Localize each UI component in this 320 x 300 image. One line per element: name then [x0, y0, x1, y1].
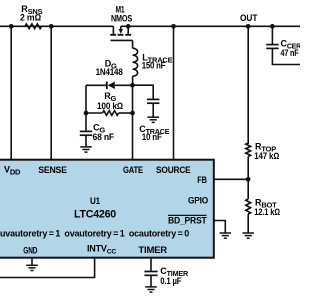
- ground: GND pin: [26, 264, 38, 266]
- wire: FB node down to R_BOT: [247, 179, 249, 199]
- wire: R_TOP to FB node: [247, 157, 249, 180]
- svg-text:47 nF: 47 nF: [281, 48, 300, 58]
- node: M1 source/body rail junction: [126, 24, 131, 29]
- wire: GATE vertical down to IC: [132, 113, 134, 161]
- capacitor C_TRACE 10 nF: [139, 99, 169, 142]
- node: VDD rail junction: [9, 24, 14, 29]
- svg-text:FB: FB: [197, 175, 207, 185]
- wire: gate network left vertical: [85, 85, 87, 131]
- wire: INTVCC pin down and left off-image: [0, 259, 95, 278]
- resistor R_BOT 12.1 kOhm: [246, 197, 280, 217]
- svg-text:SENSE: SENSE: [38, 165, 67, 175]
- wire: TIMER pin stub: [150, 259, 152, 272]
- svg-text:GND: GND: [23, 246, 38, 256]
- svg-text:SOURCE: SOURCE: [156, 165, 191, 175]
- resistor R_SNS 2 mOhm: [20, 4, 43, 29]
- ground: BD_PRST: [220, 232, 232, 234]
- transistor M1 NMOS pass FET: [110, 5, 132, 41]
- capacitor C_CER 47 nF: [266, 39, 301, 58]
- svg-text:1N4148: 1N4148: [96, 67, 123, 77]
- svg-text:100 kΩ: 100 kΩ: [97, 101, 123, 111]
- svg-text:NMOS: NMOS: [111, 13, 132, 23]
- wire: top rail left segment (VDD input): [0, 25, 113, 27]
- svg-text:OUT: OUT: [240, 13, 258, 23]
- svg-text:TIMER: TIMER: [138, 245, 167, 255]
- inductor L_TRACE 150 nF: [133, 48, 173, 76]
- wire: inductor bottom to gate node: [132, 76, 134, 85]
- wire: R_BOT to ground: [247, 214, 249, 233]
- diode D_G 1N4148: [86, 58, 133, 89]
- wire: VDD vertical down to IC: [10, 26, 12, 160]
- svg-text:BD_PRST: BD_PRST: [168, 216, 207, 226]
- svg-text:uvautoretry = 1 ovautoretry =: uvautoretry = 1 ovautoretry = 1 ocautore…: [0, 229, 189, 239]
- svg-text:10 nF: 10 nF: [142, 132, 163, 142]
- svg-text:U1: U1: [90, 196, 100, 206]
- node: R_G left junction: [84, 111, 89, 116]
- wire: top rail right segment (to OUT): [121, 25, 300, 27]
- ground: C_TIMER: [145, 286, 157, 288]
- capacitor C_TIMER 0.1 uF: [144, 266, 189, 287]
- node: gate net junction: [130, 83, 135, 88]
- wire: FB to IC: [213, 178, 248, 180]
- wire: M1 gate plate corner down to inductor: [132, 40, 134, 48]
- ground: C_G: [80, 146, 92, 148]
- wire: gate node down to R_G row: [132, 85, 134, 113]
- wire: rail down to C_CER: [271, 26, 273, 44]
- wire: gate node right to C_TRACE: [133, 85, 154, 99]
- wire: BD_PRST to ground: [213, 221, 225, 234]
- node: SENSE rail junction: [49, 24, 54, 29]
- svg-text:147 kΩ: 147 kΩ: [254, 151, 279, 161]
- svg-text:0.1 µF: 0.1 µF: [160, 276, 182, 286]
- ground: C_TRACE: [147, 116, 159, 118]
- node: FB junction: [246, 177, 251, 182]
- node: OUT rail junction: [246, 24, 251, 29]
- wire: SOURCE vertical down to IC: [173, 26, 175, 160]
- node: R_G right junction: [130, 111, 135, 116]
- capacitor C_G 68 nF: [80, 123, 115, 147]
- node: C_CER rail junction: [270, 24, 275, 29]
- resistor R_G 100 kOhm: [86, 91, 133, 115]
- op-amp U1 LTC4260 IC body: [0, 160, 214, 258]
- svg-text:68 nF: 68 nF: [93, 132, 115, 142]
- wire: C_CER bottom exiting right edge: [272, 48, 300, 64]
- svg-text:GATE: GATE: [123, 165, 143, 175]
- svg-text:GPIO: GPIO: [188, 195, 208, 205]
- svg-text:2 mΩ: 2 mΩ: [20, 12, 41, 22]
- node: SOURCE rail junction: [171, 24, 176, 29]
- svg-text:12.1 kΩ: 12.1 kΩ: [254, 207, 280, 217]
- ground: R_BOT: [242, 232, 254, 234]
- pin label BD_PRST with overline: [168, 215, 207, 225]
- svg-text:150 nF: 150 nF: [142, 60, 166, 70]
- wire: GND pin stub: [31, 259, 33, 266]
- resistor R_TOP 147 kOhm: [246, 141, 280, 161]
- wire: OUT down to R_TOP: [247, 26, 249, 144]
- svg-text:LTC4260: LTC4260: [74, 209, 116, 221]
- wire: SENSE vertical down to IC: [50, 26, 52, 160]
